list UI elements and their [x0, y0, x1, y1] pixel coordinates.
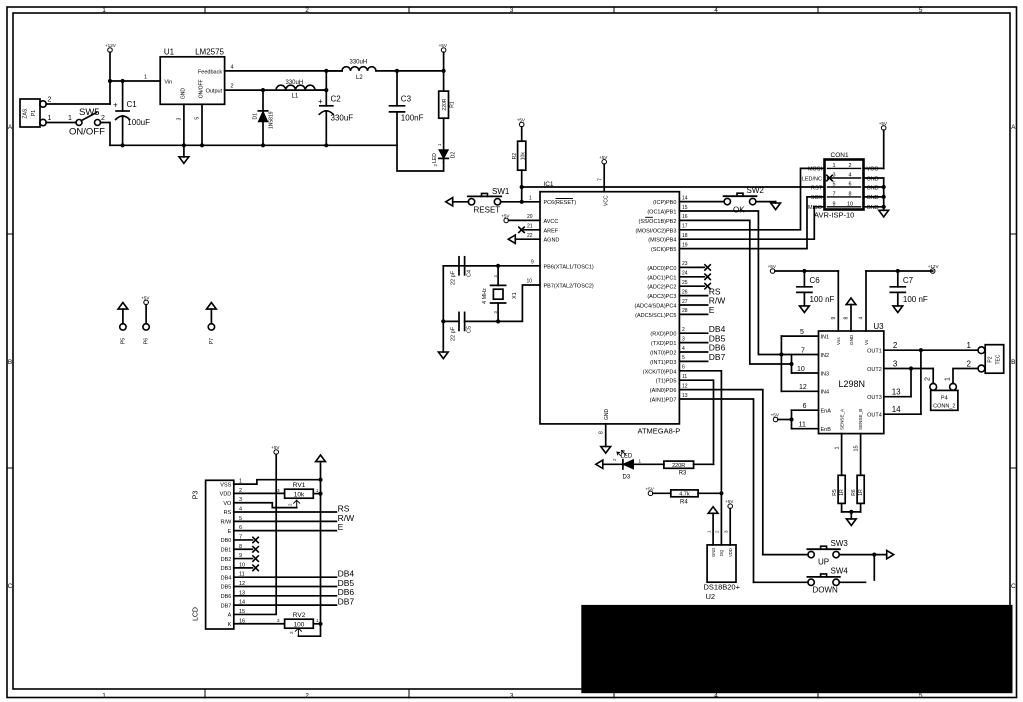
- svg-text:C2: C2: [331, 95, 342, 104]
- svg-text:C: C: [8, 583, 13, 590]
- svg-text:4 MHz: 4 MHz: [482, 288, 488, 304]
- svg-text:RV1: RV1: [293, 482, 306, 489]
- svg-text:5: 5: [919, 693, 923, 700]
- svg-text:IN1: IN1: [821, 334, 830, 340]
- PD5 wire down to R3: [679, 380, 713, 464]
- regulator U1 LM2575: [160, 57, 224, 105]
- svg-text:(XCK/T0)PD4: (XCK/T0)PD4: [643, 369, 677, 375]
- U3 OUT2 wire: [884, 368, 933, 370]
- svg-text:A: A: [228, 613, 232, 619]
- crystal X1 4MHz with C4 C5: [443, 265, 540, 267]
- svg-text:13: 13: [682, 393, 688, 399]
- U1 pin5 ON/OFF lead: [201, 104, 203, 145]
- svg-text:VCC: VCC: [604, 195, 610, 206]
- svg-text:DB7: DB7: [221, 603, 232, 609]
- test pin P7: [208, 324, 214, 330]
- svg-text:Vs: Vs: [864, 339, 869, 345]
- svg-text:SW2: SW2: [747, 186, 765, 195]
- svg-text:PC6(RESET): PC6(RESET): [544, 200, 577, 206]
- motor driver U3 L298N body: [819, 331, 884, 434]
- svg-text:LCD: LCD: [193, 607, 200, 621]
- capacitor C5 22pF: [443, 320, 459, 322]
- P3 K pin16 wire to RV2: [234, 623, 285, 625]
- wire RESET net to CON1 RST: [522, 186, 825, 188]
- svg-text:1: 1: [102, 693, 106, 700]
- svg-text:4: 4: [848, 173, 851, 179]
- svg-text:220R: 220R: [442, 98, 448, 110]
- connector P2 TEC: [978, 347, 985, 354]
- svg-text:P3: P3: [193, 491, 200, 500]
- svg-text:P4: P4: [941, 396, 948, 402]
- svg-text:3: 3: [510, 693, 514, 700]
- svg-text:6: 6: [848, 182, 851, 188]
- redacted title block: [581, 605, 1012, 693]
- sense resistors ground: [841, 503, 843, 512]
- svg-text:Feedback: Feedback: [198, 70, 222, 76]
- svg-text:8: 8: [599, 431, 605, 434]
- P3 R/W wire: [234, 520, 337, 522]
- svg-text:OUT2: OUT2: [867, 367, 882, 373]
- svg-text:IN2: IN2: [821, 353, 830, 359]
- svg-text:DB3: DB3: [221, 566, 232, 572]
- svg-text:ON/OFF: ON/OFF: [199, 79, 205, 98]
- svg-text:U1: U1: [164, 48, 175, 57]
- svg-text:5: 5: [195, 117, 201, 120]
- U3 OUT1 wire to P2 pin1: [884, 349, 978, 351]
- svg-text:26: 26: [682, 289, 688, 295]
- svg-text:(INT1)PD3: (INT1)PD3: [650, 360, 676, 366]
- svg-text:27: 27: [682, 299, 688, 305]
- U2 pin2 DQ wire: [720, 493, 722, 545]
- svg-text:28: 28: [682, 308, 688, 314]
- svg-text:(INT0)PD2: (INT0)PD2: [650, 351, 676, 357]
- P3 E wire: [234, 530, 337, 532]
- svg-text:25: 25: [682, 280, 688, 286]
- svg-text:3: 3: [177, 117, 183, 120]
- svg-text:(MOSI/OC2)PB3: (MOSI/OC2)PB3: [635, 228, 676, 234]
- test pin P5: [120, 324, 126, 330]
- svg-text:+5V: +5V: [439, 43, 448, 48]
- svg-text:+12V: +12V: [928, 264, 940, 269]
- crystal X1: [497, 266, 499, 286]
- svg-text:Vss: Vss: [836, 337, 841, 345]
- svg-text:VSS: VSS: [220, 482, 231, 488]
- svg-text:3: 3: [493, 311, 498, 314]
- svg-text:10k: 10k: [294, 492, 305, 499]
- svg-text:19: 19: [682, 242, 688, 248]
- svg-text:1: 1: [834, 446, 840, 449]
- svg-text:18: 18: [682, 233, 688, 239]
- svg-text:11: 11: [799, 422, 806, 429]
- resistor R4 4.7k pullup: [648, 491, 653, 496]
- wire P4 pin1 to P2 pin2: [953, 369, 978, 384]
- svg-text:IN4: IN4: [821, 390, 830, 396]
- svg-text:(MISO)PB4: (MISO)PB4: [648, 238, 676, 244]
- svg-text:(ADC3)PC3: (ADC3)PC3: [647, 294, 676, 300]
- svg-text:4.7k: 4.7k: [679, 492, 690, 498]
- svg-text:1: 1: [316, 618, 319, 623]
- resistor R2 10k: [519, 122, 524, 127]
- svg-text:A: A: [8, 124, 13, 131]
- wire crystal to XTAL2 pin 10: [498, 285, 540, 321]
- resistor R1 220R: [443, 71, 445, 91]
- svg-text:EnA: EnA: [821, 409, 832, 415]
- svg-text:(OC1A)PB1: (OC1A)PB1: [647, 210, 676, 216]
- svg-text:A: A: [1011, 124, 1016, 131]
- svg-text:VDD: VDD: [728, 548, 733, 557]
- svg-text:SW5: SW5: [79, 107, 100, 118]
- svg-text:DS18B20+: DS18B20+: [704, 583, 741, 592]
- crystal ground rail: [442, 266, 444, 352]
- svg-text:(ADC0)PC0: (ADC0)PC0: [647, 266, 676, 272]
- svg-text:(AIN0)PD6: (AIN0)PD6: [650, 388, 677, 394]
- svg-text:1R: 1R: [858, 489, 864, 496]
- svg-text:(RXD)PD0: (RXD)PD0: [650, 332, 676, 338]
- P3 VDD pin2 wire to RV1: [234, 492, 285, 494]
- svg-text:+: +: [113, 101, 118, 110]
- connector P1 ZAS.: [20, 99, 40, 127]
- svg-text:4: 4: [859, 317, 865, 320]
- PB0 wire to SW2: [679, 201, 724, 203]
- svg-text:17: 17: [682, 224, 688, 230]
- svg-text:AGND: AGND: [544, 238, 560, 244]
- wire L2 to +5V node: [376, 70, 444, 72]
- connector P4 CONN_2: [930, 383, 937, 390]
- svg-text:(ADC5/SCL)PC5: (ADC5/SCL)PC5: [635, 313, 676, 319]
- svg-text:RST: RST: [811, 185, 823, 191]
- svg-text:TEC: TEC: [996, 354, 1002, 364]
- svg-text:100 nF: 100 nF: [810, 295, 835, 304]
- svg-text:7: 7: [597, 178, 603, 181]
- svg-text:Output: Output: [206, 89, 223, 95]
- wire OUT2 down to P4 pin2: [932, 369, 934, 384]
- svg-text:16: 16: [682, 214, 688, 220]
- svg-text:3: 3: [893, 359, 898, 368]
- svg-text:DB6: DB6: [221, 594, 232, 600]
- svg-text:AVR-ISP-10: AVR-ISP-10: [814, 211, 854, 220]
- svg-text:2: 2: [231, 84, 234, 90]
- RV1 wiper to VO: [234, 503, 297, 508]
- svg-text:11: 11: [682, 374, 687, 380]
- U3 EnA EnB tie wire with +5V: [792, 409, 819, 411]
- wire P1 pin1 to SW5: [46, 122, 76, 124]
- svg-text:24: 24: [682, 271, 688, 277]
- svg-text:2: 2: [289, 631, 294, 634]
- svg-text:10: 10: [527, 279, 533, 285]
- svg-text:(ICP)PB0: (ICP)PB0: [653, 200, 676, 206]
- svg-text:+5V: +5V: [725, 499, 734, 504]
- svg-text:C5: C5: [467, 326, 473, 333]
- svg-text:1: 1: [529, 196, 532, 202]
- svg-text:R2: R2: [512, 153, 518, 160]
- svg-text:22: 22: [527, 233, 533, 239]
- PB3 wire to CON1 MOSI: [679, 168, 824, 229]
- svg-text:100nF: 100nF: [401, 114, 424, 123]
- PC4 wire label R/W: [679, 304, 707, 306]
- svg-text:+5V: +5V: [271, 445, 280, 450]
- U3 SENSE_A pin 1 lead: [841, 434, 843, 476]
- svg-text:2: 2: [715, 530, 720, 533]
- svg-text:GND: GND: [867, 176, 879, 182]
- PD6 wire down to SW3: [679, 390, 762, 555]
- P3 RS wire: [234, 511, 337, 513]
- CON1 VCC pin2 to +5V: [864, 167, 884, 169]
- svg-text:AREF: AREF: [544, 228, 559, 234]
- PD4 wire down to DS18B20 DQ: [679, 371, 721, 494]
- PB2 wire down to L298N IN2/IN3: [679, 220, 791, 364]
- svg-text:1: 1: [832, 163, 835, 169]
- svg-text:K: K: [228, 622, 232, 628]
- P3 DB6 wire: [234, 595, 337, 597]
- svg-text:R/W: R/W: [221, 520, 233, 526]
- CON1 GND pins: [864, 177, 884, 179]
- svg-text:9: 9: [832, 201, 835, 207]
- svg-text:RESET: RESET: [474, 206, 501, 215]
- IC1 ATMEGA8-P body: [540, 192, 679, 424]
- PD0 wire label DB4: [679, 332, 707, 334]
- svg-text:3: 3: [724, 530, 729, 533]
- svg-text:L1: L1: [292, 94, 299, 100]
- PD3 wire label DB7: [679, 360, 707, 362]
- U3 Vs pin 4 wire: [865, 271, 867, 331]
- diode D1 1N5819: [262, 90, 264, 111]
- PB4 wire to CON1 MISO: [679, 207, 824, 239]
- svg-text:2: 2: [848, 163, 851, 169]
- AREF pin 21 no-connect: [524, 229, 540, 231]
- resistor R5 1R: [838, 475, 845, 503]
- svg-text:9: 9: [831, 317, 837, 320]
- U3 OUT4 tie to OUT1: [884, 413, 921, 415]
- svg-text:UP: UP: [818, 558, 829, 567]
- U3 OUT3 tie to OUT2: [884, 396, 911, 398]
- svg-text:PB7(XTAL2/TOSC2): PB7(XTAL2/TOSC2): [544, 284, 594, 290]
- svg-text:(ADC1)PC1: (ADC1)PC1: [647, 275, 676, 281]
- svg-text:P6: P6: [144, 338, 150, 344]
- PC0-PC2 no-connects: [679, 266, 704, 268]
- resistor R6 1R: [857, 475, 864, 503]
- AGND pin 22 with arrow: [508, 235, 515, 243]
- P3 DB7 wire: [234, 604, 337, 606]
- svg-text:RS: RS: [224, 510, 232, 516]
- svg-text:GND: GND: [867, 185, 879, 191]
- svg-text:MOSI: MOSI: [808, 167, 823, 173]
- svg-text:1R: 1R: [839, 489, 845, 496]
- svg-text:21: 21: [527, 223, 533, 229]
- resistor R3 220R: [664, 461, 694, 468]
- svg-text:3: 3: [277, 488, 280, 493]
- svg-text:220R: 220R: [672, 463, 685, 469]
- svg-text:(TXD)PD1: (TXD)PD1: [651, 341, 676, 347]
- svg-text:330uF: 330uF: [331, 114, 354, 123]
- svg-text:7: 7: [832, 191, 835, 197]
- temperature sensor U2 DS18B20: [707, 545, 736, 582]
- svg-text:(SS/OC1B)PB2: (SS/OC1B)PB2: [638, 219, 676, 225]
- power flag +12V input: [108, 48, 113, 53]
- svg-text:DB2: DB2: [221, 557, 232, 563]
- svg-text:12: 12: [799, 384, 807, 391]
- svg-text:D3: D3: [623, 475, 631, 481]
- svg-text:1: 1: [967, 341, 972, 350]
- svg-text:(ADC2)PC2: (ADC2)PC2: [647, 285, 676, 291]
- svg-text:P7: P7: [209, 338, 215, 344]
- svg-text:VCC: VCC: [867, 167, 879, 173]
- svg-text:GND: GND: [604, 409, 610, 421]
- wire P1 pin2 to +12V node: [46, 103, 110, 105]
- svg-text:9: 9: [531, 259, 534, 265]
- svg-text:U3: U3: [873, 322, 884, 331]
- U3 SENSE_B pin 15 lead: [860, 434, 862, 476]
- U3 GND pin 8 wire: [846, 298, 856, 305]
- svg-text:+5V: +5V: [646, 486, 655, 491]
- capacitor C3 100nF: [396, 71, 398, 106]
- svg-text:7: 7: [801, 347, 805, 354]
- svg-text:R4: R4: [680, 500, 688, 506]
- P3 DB4 wire: [234, 576, 337, 578]
- LED D2: [443, 118, 445, 150]
- P3 DB0-DB3 no-connects: [234, 539, 253, 541]
- svg-text:MISO: MISO: [808, 205, 823, 211]
- svg-text:1: 1: [945, 377, 952, 381]
- svg-text:3: 3: [510, 7, 514, 14]
- svg-text:LM2575: LM2575: [195, 48, 224, 57]
- svg-text:1: 1: [102, 7, 106, 14]
- svg-text:SW1: SW1: [492, 187, 510, 196]
- svg-text:12: 12: [682, 383, 688, 389]
- PC3 wire label RS: [679, 295, 707, 297]
- svg-text:100: 100: [294, 622, 305, 629]
- svg-text:E: E: [709, 305, 715, 315]
- svg-text:D2: D2: [451, 152, 457, 159]
- svg-text:13: 13: [892, 388, 901, 397]
- svg-text:4: 4: [682, 346, 685, 352]
- switch SW4 DOWN: [808, 579, 814, 585]
- svg-text:R1: R1: [450, 101, 456, 108]
- wire SW5 to ground rail: [101, 123, 110, 146]
- svg-text:22 pF: 22 pF: [451, 326, 457, 341]
- svg-text:DB1: DB1: [221, 547, 232, 553]
- svg-text:2: 2: [682, 327, 685, 333]
- svg-text:+5V: +5V: [501, 213, 510, 218]
- svg-text:GND: GND: [849, 334, 854, 345]
- svg-text:CONN_2: CONN_2: [933, 404, 955, 410]
- svg-text:VDD: VDD: [220, 492, 232, 498]
- svg-text:15: 15: [682, 205, 688, 211]
- svg-text:1: 1: [68, 115, 72, 122]
- PB5 wire to CON1 SCK: [679, 197, 824, 249]
- P3 A pin15 wire to +5V: [234, 454, 276, 614]
- switch SW2 OK: [724, 198, 730, 204]
- CON1 pin3 no-connect: [827, 175, 832, 180]
- svg-text:LED/NC: LED/NC: [802, 176, 822, 182]
- svg-text:C3: C3: [401, 95, 412, 104]
- U2 pin3 VDD +5V: [729, 509, 731, 545]
- svg-text:8: 8: [848, 191, 851, 197]
- svg-text:14: 14: [892, 405, 901, 414]
- svg-text:OUT1: OUT1: [867, 349, 882, 355]
- svg-text:15: 15: [853, 445, 859, 451]
- svg-text:AVCC: AVCC: [544, 219, 559, 225]
- svg-text:(ADC4/SDA)PC4: (ADC4/SDA)PC4: [635, 304, 677, 310]
- svg-text:P1: P1: [31, 110, 37, 116]
- svg-text:2: 2: [101, 115, 105, 122]
- svg-text:R5: R5: [832, 489, 838, 496]
- svg-text:DOWN: DOWN: [813, 586, 839, 595]
- svg-text:L298N: L298N: [839, 379, 866, 389]
- svg-text:+5V: +5V: [141, 295, 150, 300]
- svg-text:100uF: 100uF: [127, 118, 150, 127]
- svg-text:E: E: [228, 529, 232, 535]
- svg-text:3: 3: [277, 618, 280, 623]
- IC1 GND pin 8: [605, 424, 607, 447]
- svg-text:SCK: SCK: [811, 195, 823, 201]
- IC1 VCC pin 7: [602, 160, 607, 165]
- svg-text:C: C: [1011, 583, 1016, 590]
- svg-text:P5: P5: [121, 338, 127, 344]
- svg-text:DQ: DQ: [719, 549, 724, 556]
- U1 pin3 GND lead: [183, 104, 185, 145]
- svg-text:VO: VO: [223, 501, 232, 507]
- svg-text:5: 5: [832, 182, 835, 188]
- svg-text:+12V: +12V: [105, 43, 117, 48]
- svg-text:5: 5: [682, 355, 685, 361]
- svg-text:10k: 10k: [520, 152, 526, 161]
- svg-text:1: 1: [706, 530, 711, 533]
- svg-text:6: 6: [682, 365, 685, 371]
- RV2 wiper to gnd net: [295, 628, 301, 635]
- svg-text:2: 2: [288, 503, 293, 506]
- U3 Vss pin 9 wire: [837, 271, 839, 331]
- svg-text:P2: P2: [988, 356, 994, 362]
- ground rail wire: [110, 145, 444, 171]
- svg-text:1: 1: [437, 143, 442, 146]
- svg-text:+: +: [318, 97, 323, 106]
- PD2 wire label DB6: [679, 351, 707, 353]
- svg-text:R3: R3: [679, 471, 687, 477]
- svg-text:+5V: +5V: [599, 155, 608, 160]
- P3 VSS pin1 wire to gnd net: [234, 480, 321, 484]
- svg-text:DB7: DB7: [338, 596, 355, 606]
- svg-text:8: 8: [844, 317, 850, 320]
- svg-text:DB5: DB5: [221, 585, 232, 591]
- svg-text:IN3: IN3: [821, 371, 830, 377]
- svg-text:SENSE_B: SENSE_B: [858, 409, 863, 430]
- svg-text:(AIN1)PD7: (AIN1)PD7: [650, 398, 677, 404]
- svg-text:5: 5: [919, 7, 923, 14]
- PD7 wire down to SW4: [679, 399, 753, 582]
- U1 feedback pin4 wire: [225, 70, 342, 72]
- U3 IN1 IN4 tie wire: [781, 335, 818, 337]
- ground after SW2: [775, 202, 777, 203]
- svg-text:10: 10: [797, 366, 805, 373]
- capacitor C2 330uF: [325, 71, 327, 106]
- svg-text:+5V: +5V: [517, 118, 526, 123]
- svg-text:LED: LED: [621, 454, 633, 460]
- svg-text:+5V: +5V: [768, 264, 777, 269]
- svg-text:DB4: DB4: [221, 575, 232, 581]
- svg-text:GND: GND: [867, 195, 879, 201]
- svg-text:SW4: SW4: [831, 567, 849, 576]
- svg-text:C1: C1: [127, 100, 138, 109]
- svg-text:ON/OFF: ON/OFF: [69, 127, 105, 138]
- svg-text:2: 2: [612, 458, 617, 461]
- switch SW5: [76, 120, 82, 126]
- svg-text:4: 4: [714, 693, 718, 700]
- svg-text:L2: L2: [356, 75, 363, 81]
- svg-text:22 pF: 22 pF: [451, 270, 457, 285]
- PD1 wire label DB5: [679, 342, 707, 344]
- AVCC pin 20 with +5V: [504, 218, 509, 223]
- wire +12V node to U1 Vin: [110, 80, 160, 82]
